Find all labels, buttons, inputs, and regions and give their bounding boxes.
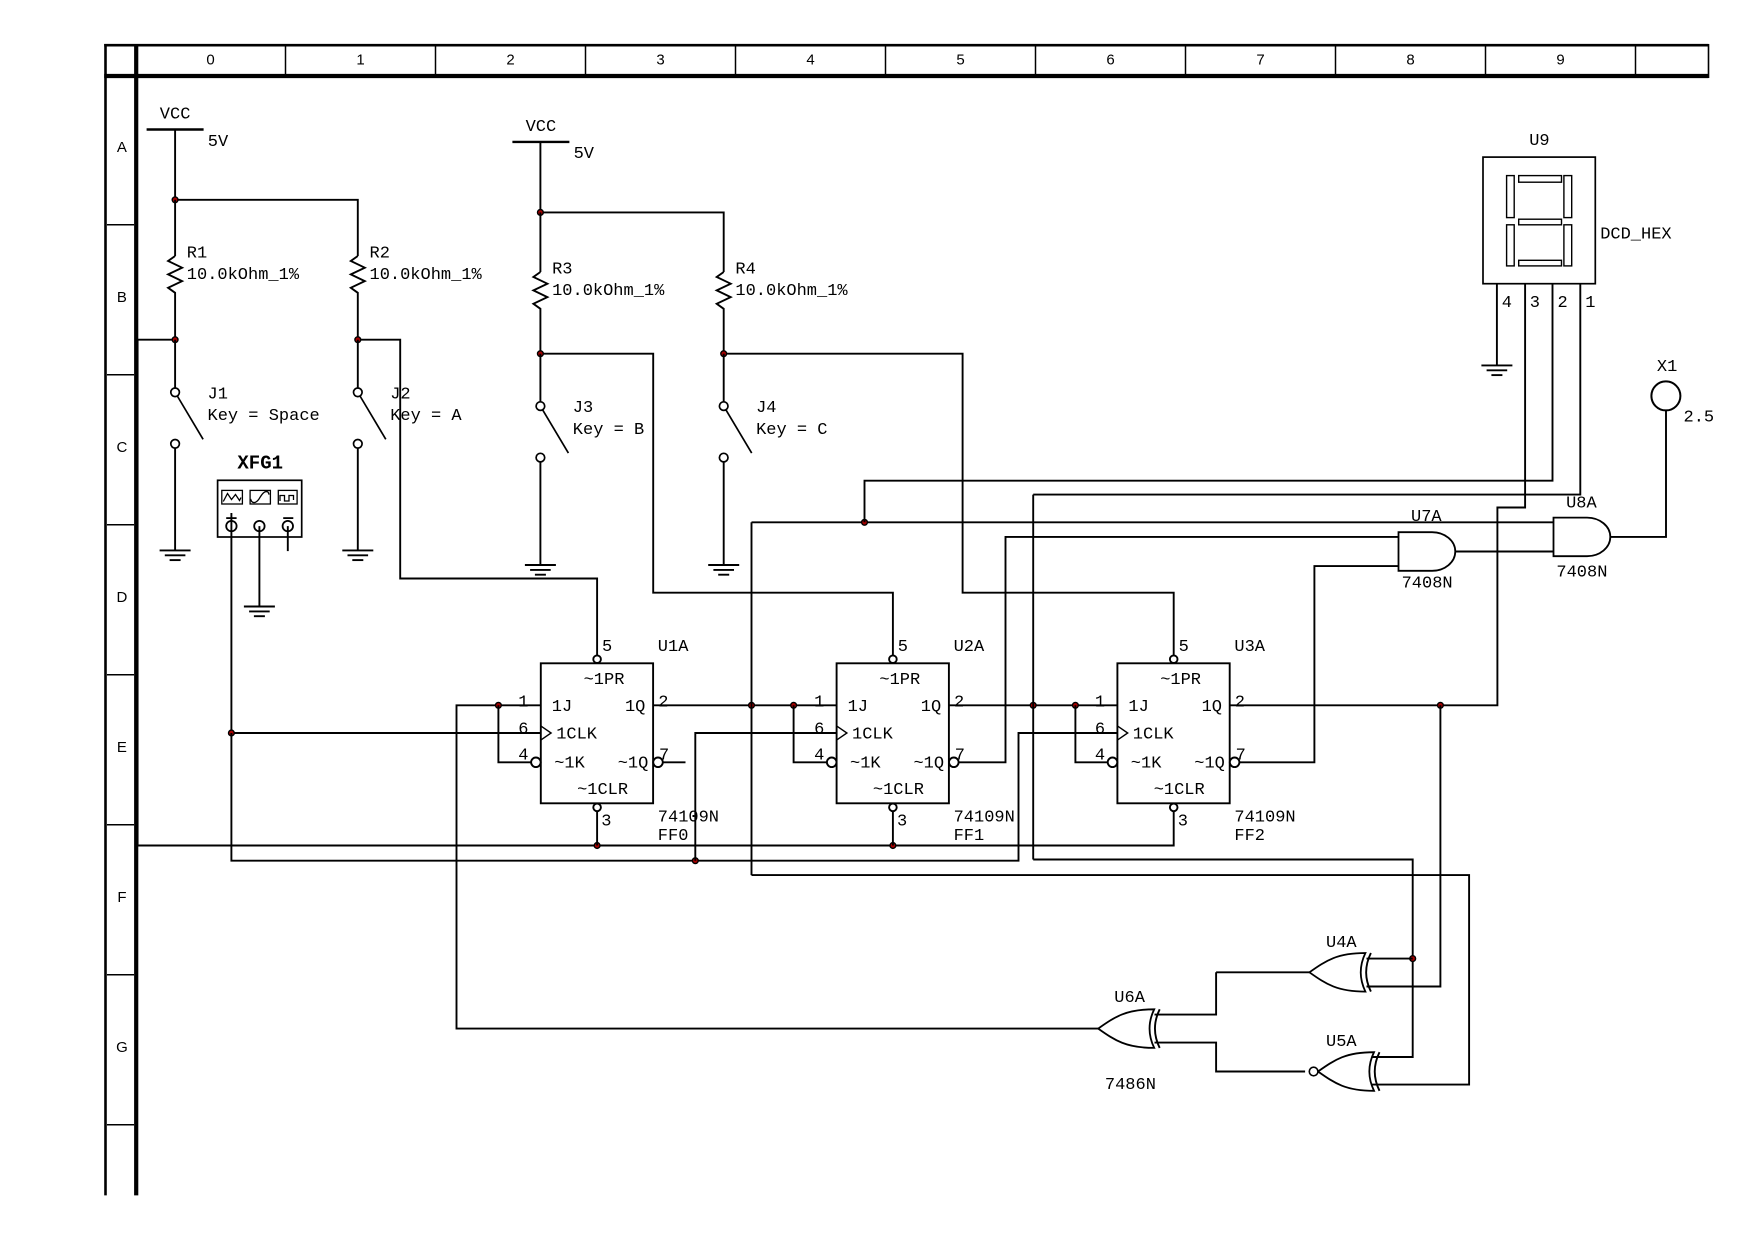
svg-text:1J: 1J	[552, 698, 572, 717]
junction U2A J-K tie	[791, 702, 797, 708]
svg-text:B: B	[117, 289, 127, 306]
svg-text:R4: R4	[735, 260, 755, 279]
svg-text:9: 9	[1556, 51, 1564, 68]
svg-text:5: 5	[602, 638, 612, 657]
svg-text:1: 1	[1095, 694, 1105, 713]
XOR gate U6A (7486N)	[1098, 1009, 1154, 1048]
svg-text:J1: J1	[208, 385, 228, 404]
junction clock branch to U2A	[692, 858, 698, 864]
svg-text:5V: 5V	[208, 133, 229, 152]
wire R4 bottom to J4 node	[723, 312, 725, 354]
svg-text:E: E	[117, 739, 127, 756]
svg-text:74109N: 74109N	[658, 808, 719, 827]
wire preset net A (J2 node to U1A ~1PR)	[358, 340, 597, 656]
svg-text:1Q: 1Q	[625, 698, 645, 717]
svg-text:~1Q: ~1Q	[1194, 755, 1225, 774]
wire U2A ~1Q to U7A upper input	[959, 537, 1399, 762]
wire Q2 to U4A lower input	[1367, 705, 1441, 986]
wire Q0 to U8A input / display	[752, 521, 1554, 523]
wire VCC2 stem	[539, 142, 541, 213]
wire J1 to ground	[174, 448, 176, 551]
7-segment display U9 (DCD_HEX)	[1483, 157, 1595, 284]
svg-text:~1K: ~1K	[1131, 755, 1162, 774]
switch J4 (Key = C)	[719, 402, 751, 462]
wire J4 node to J4 pole	[723, 354, 725, 402]
junction VCC2 node	[538, 210, 544, 216]
wire U1A 1Q to U2A 1J	[653, 704, 837, 706]
junction R1/J1 node	[172, 337, 178, 343]
svg-text:1CLK: 1CLK	[852, 725, 894, 744]
svg-text:7486N: 7486N	[1105, 1076, 1156, 1095]
wire U6A output to U1A 1J	[457, 705, 1099, 1028]
svg-text:1: 1	[1585, 294, 1595, 313]
junction CLR at U1A pin3	[594, 843, 600, 849]
svg-text:4: 4	[1502, 294, 1512, 313]
flip-flop U3A (74109N FF2)	[1108, 655, 1240, 811]
svg-text:5: 5	[1179, 638, 1189, 657]
wire U2A J to ~1K tie	[794, 705, 827, 762]
svg-text:XFG1: XFG1	[237, 452, 283, 474]
svg-text:6: 6	[1095, 720, 1105, 739]
svg-text:2: 2	[1235, 694, 1245, 713]
svg-text:U9: U9	[1529, 132, 1549, 151]
wire J2 to ground	[357, 448, 359, 551]
svg-text:1CLK: 1CLK	[556, 725, 598, 744]
svg-text:1: 1	[356, 51, 364, 68]
svg-text:U5A: U5A	[1326, 1033, 1357, 1052]
svg-text:1CLK: 1CLK	[1133, 725, 1175, 744]
svg-text:X1: X1	[1657, 358, 1677, 377]
svg-text:4: 4	[806, 51, 814, 68]
svg-text:3: 3	[1530, 294, 1540, 313]
svg-text:6: 6	[1106, 51, 1114, 68]
svg-text:3: 3	[1178, 812, 1188, 831]
svg-text:~1K: ~1K	[850, 755, 881, 774]
wire preset net B (J3 node to U2A ~1PR)	[540, 354, 893, 656]
junction CLR at U2A pin3	[890, 843, 896, 849]
svg-text:2: 2	[658, 694, 668, 713]
wire R1 bottom to J1 node	[174, 296, 176, 340]
wire VCC1 to R1 top	[174, 200, 176, 256]
wire U1A pin3 to CLR line	[596, 811, 598, 845]
svg-text:Key = B: Key = B	[573, 421, 644, 440]
wire XFG1 - stub	[287, 526, 289, 551]
wire XFG1 + output down	[230, 513, 232, 733]
junction U3A J-K tie	[1073, 702, 1079, 708]
junction Q2 branch	[1438, 702, 1444, 708]
svg-text:DCD_HEX: DCD_HEX	[1600, 226, 1671, 245]
wire U3A ~1Q to U7A lower input	[1240, 566, 1399, 762]
wire J4 to ground	[723, 462, 725, 565]
resistor R1	[168, 256, 182, 296]
wire Q1 to U4A/U5A upper inputs	[1033, 860, 1413, 1058]
svg-text:~1CLR: ~1CLR	[1154, 781, 1205, 800]
wire Q0 branch to U9 pin 2	[865, 284, 1553, 522]
junction Q0 branch	[749, 702, 755, 708]
svg-text:1: 1	[518, 694, 528, 713]
svg-text:FF0: FF0	[658, 827, 689, 846]
svg-text:C: C	[116, 439, 127, 456]
svg-text:~1K: ~1K	[554, 755, 585, 774]
wire XFG1 common to ground	[258, 526, 260, 606]
svg-text:1Q: 1Q	[1202, 698, 1222, 717]
VCC supply V1 (5V)	[147, 128, 204, 130]
svg-text:~1Q: ~1Q	[913, 755, 944, 774]
svg-text:2.5: 2.5	[1684, 408, 1715, 427]
svg-text:74109N: 74109N	[954, 808, 1015, 827]
resistor R3	[533, 272, 547, 312]
wire VCC2 to R3 top	[539, 212, 541, 272]
wire Q0 vertical	[751, 522, 753, 875]
svg-text:2: 2	[506, 51, 514, 68]
junction R2/J2 node	[355, 337, 361, 343]
svg-text:U2A: U2A	[954, 638, 985, 657]
svg-text:10.0kOhm_1%: 10.0kOhm_1%	[735, 282, 848, 301]
svg-text:0: 0	[206, 51, 214, 68]
wire clock bus to U3A 1CLK	[231, 733, 1117, 861]
wire U8A output to probe X1	[1610, 410, 1666, 537]
svg-text:~1PR: ~1PR	[1160, 671, 1201, 690]
switch J1 (Key = Space)	[171, 388, 203, 448]
svg-text:U6A: U6A	[1114, 989, 1145, 1008]
wire U4A upper input from Q1	[1367, 958, 1413, 960]
junction Q1 to U4A branch	[1410, 956, 1416, 962]
AND gate U8A (7408N)	[1554, 518, 1611, 557]
svg-text:J3: J3	[573, 399, 593, 418]
svg-text:5: 5	[956, 51, 964, 68]
flip-flop U2A (74109N FF1)	[827, 655, 959, 811]
wire J3 to ground	[539, 462, 541, 565]
probe X1	[1651, 381, 1680, 410]
svg-text:3: 3	[656, 51, 664, 68]
XNOR gate U5A (7486N)	[1318, 1052, 1374, 1091]
wire J3 node to J3 pole	[539, 354, 541, 402]
wire clock to U1A 1CLK	[231, 732, 540, 734]
wire U3A 1Q to U9 pin 3	[1230, 284, 1525, 705]
wire VCC2 split to R4 top	[540, 212, 723, 272]
svg-text:~1CLR: ~1CLR	[577, 781, 628, 800]
junction clock at XFG1 +	[229, 730, 235, 736]
wire clock branch to U2A 1CLK	[695, 733, 836, 861]
svg-text:3: 3	[897, 812, 907, 831]
wire VCC split to R2 top	[175, 200, 358, 256]
junction Q0 to display pin2 branch	[862, 519, 868, 525]
svg-text:Key = Space: Key = Space	[208, 407, 320, 426]
svg-text:FF1: FF1	[954, 827, 985, 846]
svg-text:10.0kOhm_1%: 10.0kOhm_1%	[370, 266, 483, 285]
svg-text:6: 6	[518, 720, 528, 739]
svg-text:5V: 5V	[574, 145, 595, 164]
svg-text:~1Q: ~1Q	[618, 755, 649, 774]
wire U3A J to ~1K tie	[1075, 705, 1107, 762]
svg-text:7408N: 7408N	[1402, 575, 1453, 594]
wire U1A J to ~1K tie	[498, 705, 531, 762]
resistor R2	[351, 256, 365, 296]
wire R3 bottom to J3 node	[539, 312, 541, 354]
svg-text:1J: 1J	[1128, 698, 1148, 717]
svg-text:1J: 1J	[848, 698, 868, 717]
svg-text:Key = A: Key = A	[390, 407, 462, 426]
junction Q1 branch	[1030, 702, 1036, 708]
wire U2A 1Q to U3A 1J	[949, 704, 1118, 706]
wire preset net C (J4 node to U3A ~1PR)	[724, 354, 1174, 656]
ground under U9 pin 4	[1481, 365, 1512, 375]
AND gate U7A (7408N)	[1399, 532, 1456, 571]
svg-text:1Q: 1Q	[921, 698, 941, 717]
svg-text:J2: J2	[390, 385, 410, 404]
wire U2A pin3 to CLR line	[892, 811, 894, 845]
svg-text:FF2: FF2	[1234, 827, 1265, 846]
svg-text:U8A: U8A	[1566, 494, 1597, 513]
XOR gate U4A (7486N)	[1309, 953, 1365, 992]
junction VCC1 node	[172, 197, 178, 203]
svg-text:74109N: 74109N	[1234, 808, 1295, 827]
flip-flop U1A (74109N FF0)	[531, 655, 663, 811]
ground under XFG1 common	[244, 607, 275, 617]
wire Q1 to U9 pin 1	[1033, 284, 1580, 495]
wire U1A ~1Q stub	[664, 761, 686, 763]
wire U9 pin 4 to ground	[1496, 284, 1498, 365]
svg-text:7: 7	[1256, 51, 1264, 68]
wire U4A output to U6A branch	[1216, 971, 1310, 973]
svg-text:U4A: U4A	[1326, 934, 1357, 953]
svg-text:~1PR: ~1PR	[879, 671, 920, 690]
svg-text:R1: R1	[187, 244, 207, 263]
svg-text:R2: R2	[370, 244, 390, 263]
svg-text:U7A: U7A	[1411, 508, 1442, 527]
wire U5A output to U6A lower input	[1155, 1043, 1306, 1072]
svg-text:F: F	[117, 889, 126, 906]
wire Q1 vertical	[1032, 495, 1034, 860]
svg-text:10.0kOhm_1%: 10.0kOhm_1%	[552, 282, 665, 301]
svg-text:2: 2	[1558, 294, 1568, 313]
ground under J4	[708, 565, 739, 575]
wire to U6A upper input	[1155, 972, 1217, 1014]
svg-text:R3: R3	[552, 260, 572, 279]
ground under J3	[525, 565, 556, 575]
svg-text:U3A: U3A	[1234, 638, 1265, 657]
wire VCC to R1/R2 split	[174, 130, 176, 200]
svg-text:1: 1	[814, 694, 824, 713]
svg-text:7408N: 7408N	[1556, 564, 1607, 583]
wire J2 node to J2 pole	[357, 340, 359, 389]
ground under J2	[342, 550, 373, 560]
svg-text:2: 2	[954, 694, 964, 713]
wire Q0 to U5A lower input	[752, 875, 1470, 1085]
VCC supply V2 (5V)	[512, 141, 569, 143]
svg-text:6: 6	[814, 720, 824, 739]
wire R2 bottom to J2 node	[357, 296, 359, 340]
ground under J1	[160, 550, 191, 560]
svg-text:G: G	[116, 1039, 128, 1056]
svg-text:Key = C: Key = C	[756, 421, 827, 440]
svg-text:~1PR: ~1PR	[584, 671, 625, 690]
junction R4/J4 node	[721, 351, 727, 357]
svg-text:VCC: VCC	[526, 118, 557, 137]
wire J1 node to J1 pole	[174, 340, 176, 389]
svg-text:D: D	[116, 589, 127, 606]
svg-text:VCC: VCC	[160, 106, 191, 125]
svg-text:~1CLR: ~1CLR	[873, 781, 924, 800]
svg-text:8: 8	[1406, 51, 1414, 68]
switch J3 (Key = B)	[536, 402, 568, 462]
svg-text:U1A: U1A	[658, 638, 689, 657]
switch J2 (Key = A)	[354, 388, 386, 448]
resistor R4	[717, 272, 731, 312]
wire CLR net (J1 node via border to FF clear pins)	[138, 340, 1174, 846]
wire U7A output to U8A lower input	[1455, 551, 1553, 553]
svg-text:3: 3	[601, 812, 611, 831]
junction U1A J-K tie	[496, 702, 502, 708]
svg-text:J4: J4	[756, 399, 776, 418]
svg-text:10.0kOhm_1%: 10.0kOhm_1%	[187, 266, 300, 285]
svg-text:5: 5	[898, 638, 908, 657]
junction R3/J3 node	[538, 351, 544, 357]
svg-text:A: A	[117, 139, 127, 156]
